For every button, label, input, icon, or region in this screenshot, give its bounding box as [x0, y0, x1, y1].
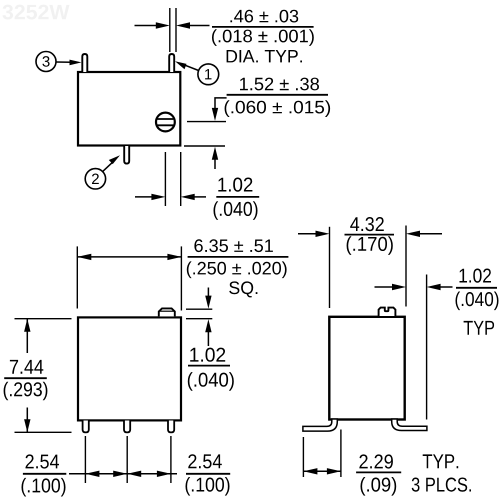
dim 1.02 (top view) text — [214, 178, 260, 220]
adjustment screw — [156, 113, 175, 132]
dim 6.35 text — [187, 239, 289, 297]
dim 2.54 extension lines — [85, 436, 170, 483]
dim 1.02 typ extension line — [426, 275, 428, 420]
side view right J-lead — [392, 419, 427, 431]
pin 2 lead (bottom) — [124, 146, 129, 164]
side view body — [329, 317, 404, 420]
dim .46 arrows — [135, 22, 210, 28]
dim 4.32 arrows — [298, 231, 442, 237]
dim 1.02 typ text — [456, 269, 499, 335]
dim 6.35 dimension line — [77, 254, 181, 260]
dim 1.02 tab height extension lines — [186, 309, 212, 319]
dim 1.02 (top view) arrows — [135, 194, 206, 200]
front view body — [78, 317, 181, 420]
dim 7.44 dimension line — [24, 319, 30, 433]
side view screw boss with slot — [379, 308, 396, 316]
dim 2.54 left text — [22, 454, 67, 496]
pin 3 lead (top-left) — [82, 54, 87, 72]
front view pin 3 — [168, 421, 174, 433]
dim 6.35 extension lines — [77, 246, 181, 310]
dim 7.44 extension lines — [15, 319, 72, 433]
dim 7.44 text — [4, 360, 48, 400]
dim 2.54 dimension line and arrows — [69, 471, 177, 477]
pin 1 lead (top-right) — [169, 54, 174, 72]
dim .46 text — [212, 10, 314, 63]
leader balloon 1 — [175, 61, 219, 84]
side view left J-lead — [303, 419, 337, 431]
dim 4.32 extension lines — [330, 226, 407, 309]
dim 2.29 extension lines — [303, 430, 341, 478]
dim 2.54 right text — [186, 454, 231, 495]
front view pin 2 — [124, 421, 130, 433]
watermark 3252W — [3, 5, 70, 20]
front view pin 1 — [83, 421, 89, 433]
dim 2.29 text — [356, 454, 401, 495]
dim 1.02 typ arrows — [375, 284, 453, 290]
dim 4.32 text — [345, 217, 395, 255]
dim 1.02 (top view) extension lines — [165, 152, 180, 206]
leader balloon 3 — [36, 52, 82, 72]
dim 1.02 tab height arrows — [205, 288, 211, 347]
note TYP 3 PLCS — [412, 454, 471, 491]
front view screw boss tab — [159, 308, 175, 316]
dim 1.52 text — [225, 78, 331, 117]
dim 1.52 bracket and arrows — [184, 98, 227, 169]
dim .46 extension lines — [170, 8, 176, 52]
top view body — [78, 72, 180, 146]
dim 1.02 front text — [188, 348, 234, 391]
leader balloon 2 — [85, 155, 120, 189]
dim 2.29 dimension line — [303, 468, 341, 474]
